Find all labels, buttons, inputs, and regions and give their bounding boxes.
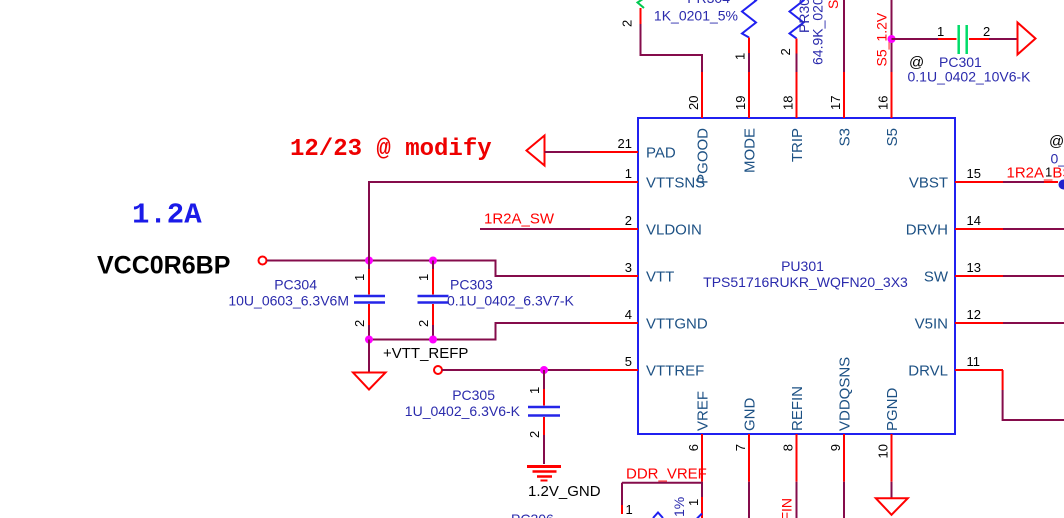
svg-text:@: @ — [1049, 133, 1064, 150]
svg-text:TRIP: TRIP — [789, 128, 806, 162]
svg-text:12: 12 — [967, 307, 981, 322]
svg-text:GND: GND — [742, 398, 759, 432]
port PAD arrow — [527, 136, 545, 166]
svg-text:21: 21 — [618, 136, 632, 151]
svg-text:2: 2 — [983, 24, 990, 39]
pin 13 SW — [924, 260, 1003, 286]
svg-text:12/23 @ modify: 12/23 @ modify — [290, 136, 492, 163]
svg-text:S5: S5 — [884, 128, 901, 146]
svg-text:16: 16 — [876, 96, 891, 110]
svg-text:PC306: PC306 — [511, 511, 554, 518]
pin 18 TRIP — [781, 72, 807, 162]
svg-text:1R2A_BST: 1R2A_BST — [1007, 165, 1064, 182]
pin 1 VTTSNS — [590, 166, 705, 192]
IC PU301 body — [638, 118, 955, 434]
svg-text:S3: S3 — [825, 0, 841, 9]
inductor dot (clipped) — [1059, 180, 1064, 190]
svg-text:2: 2 — [527, 431, 542, 438]
svg-text:15: 15 — [967, 166, 981, 181]
svg-text:1: 1 — [625, 166, 632, 181]
svg-text:1: 1 — [1045, 165, 1052, 180]
svg-text:DRVL: DRVL — [908, 363, 948, 380]
resistor (top-left, clipped) green tip — [620, 0, 647, 27]
wire MODE — [748, 53, 750, 72]
wire PGOOD — [641, 24, 703, 72]
svg-text:10: 10 — [876, 444, 891, 458]
wire VTTSNS — [369, 182, 590, 261]
svg-text:2: 2 — [352, 320, 367, 327]
junction node VTTREF at PC305 — [540, 366, 548, 374]
wire VTTREF — [442, 369, 590, 371]
svg-text:DDR_VREF: DDR_VREF — [626, 466, 707, 483]
pin 16 S5 — [876, 72, 902, 146]
svg-text:20: 20 — [686, 96, 701, 110]
wire S5 to PC301 — [892, 38, 939, 40]
wire VTTGND — [369, 323, 590, 340]
svg-text:1K_0201_5%: 1K_0201_5% — [654, 8, 738, 24]
svg-text:3: 3 — [625, 260, 632, 275]
svg-text:S5_1.2V: S5_1.2V — [874, 12, 890, 66]
svg-text:SW: SW — [924, 269, 949, 286]
svg-text:REFIN: REFIN — [779, 498, 795, 518]
svg-text:1R2A_SW: 1R2A_SW — [484, 211, 555, 228]
pin 3 VTT — [590, 260, 674, 286]
svg-text:PC305: PC305 — [452, 387, 495, 403]
junction node VCC at PC304 — [365, 257, 373, 265]
svg-text:1: 1 — [686, 499, 701, 506]
svg-text:5: 5 — [625, 354, 632, 369]
svg-text:VREF: VREF — [695, 391, 712, 431]
wire DRVL — [1003, 370, 1064, 420]
pin 2 VLDOIN — [590, 213, 702, 239]
svg-text:1: 1 — [352, 274, 367, 281]
port arrow right — [1018, 23, 1036, 55]
svg-text:64.9K_0201_1%: 64.9K_0201_1% — [810, 0, 826, 65]
pin 19 MODE — [733, 72, 759, 173]
junction node VCC at PC303 — [429, 257, 437, 265]
pin 15 VBST — [909, 166, 1003, 192]
capacitor PC301 — [908, 24, 1032, 85]
pin 11 DRVL — [908, 354, 1003, 380]
signal ground 1.2V_GND — [527, 467, 601, 501]
wire VDDQSNS pin9 — [843, 482, 845, 518]
svg-text:1: 1 — [733, 53, 748, 60]
svg-text:1: 1 — [416, 274, 431, 281]
ground power symbol PGND — [876, 498, 908, 515]
junction node S5 — [888, 35, 896, 43]
svg-text:MODE: MODE — [742, 128, 759, 173]
svg-text:7: 7 — [733, 444, 748, 451]
svg-text:1%: 1% — [671, 497, 687, 517]
wire TRIP — [796, 54, 798, 73]
wire PGND to ground — [891, 482, 893, 498]
pin 10 PGND — [876, 387, 902, 481]
capacitor PC303 — [416, 261, 575, 340]
svg-text:0.1U_0402_6.3V7-K: 0.1U_0402_6.3V7-K — [447, 293, 575, 309]
wire REFIN pin8 — [796, 482, 798, 518]
wire SW — [1003, 275, 1064, 277]
wire to ground — [368, 340, 370, 373]
pin 7 GND — [733, 398, 759, 482]
svg-text:V5IN: V5IN — [915, 316, 948, 333]
svg-text:17: 17 — [828, 96, 843, 110]
svg-text:2: 2 — [620, 20, 635, 27]
svg-text:1: 1 — [937, 24, 944, 39]
svg-text:1.2A: 1.2A — [132, 199, 202, 232]
resistor fragment (clipped) — [653, 513, 663, 518]
svg-text:VTTREF: VTTREF — [646, 363, 704, 380]
svg-text:2: 2 — [625, 213, 632, 228]
junction node gnd at PC303 — [429, 336, 437, 344]
svg-text:1: 1 — [527, 387, 542, 394]
pin 6 VREF — [686, 391, 712, 482]
svg-text:8: 8 — [781, 444, 796, 451]
svg-text:PC304: PC304 — [274, 277, 317, 293]
svg-text:DRVH: DRVH — [906, 222, 948, 239]
wire PC301 to port — [989, 38, 1018, 40]
pin 9 VDDQSNS — [828, 357, 854, 482]
pin 21 PAD — [590, 136, 676, 162]
svg-text:6: 6 — [686, 444, 701, 451]
ground power symbol — [353, 373, 386, 390]
svg-text:1: 1 — [626, 502, 633, 517]
svg-text:4: 4 — [625, 307, 632, 322]
svg-text:PAD: PAD — [646, 145, 676, 162]
svg-text:1U_0402_6.3V6-K: 1U_0402_6.3V6-K — [405, 403, 521, 419]
pin 5 VTTREF — [590, 354, 704, 380]
svg-text:0.1U_0402_10V6-K: 0.1U_0402_10V6-K — [908, 69, 1032, 85]
svg-text:VLDOIN: VLDOIN — [646, 222, 702, 239]
svg-text:18: 18 — [781, 96, 796, 110]
wire VCC0R6BP to VTT — [267, 261, 590, 277]
wire PAD — [545, 151, 591, 153]
wire S5 — [891, 0, 893, 72]
svg-text:TPS51716RUKR_WQFN20_3X3: TPS51716RUKR_WQFN20_3X3 — [703, 274, 908, 290]
svg-text:11: 11 — [967, 354, 981, 369]
pin 14 DRVH — [906, 213, 1003, 239]
pin 17 S3 — [828, 72, 854, 146]
svg-text:VTTGND: VTTGND — [646, 316, 708, 333]
svg-text:PGND: PGND — [884, 387, 901, 431]
wire GND pin7 — [748, 482, 750, 518]
port VCC0R6BP — [259, 257, 267, 265]
wire S3 — [843, 0, 845, 72]
svg-text:PR304: PR304 — [687, 0, 730, 6]
svg-text:13: 13 — [967, 260, 981, 275]
svg-text:9: 9 — [828, 444, 843, 451]
svg-text:S3: S3 — [837, 128, 854, 146]
svg-text:14: 14 — [967, 213, 981, 228]
svg-text:2: 2 — [416, 320, 431, 327]
svg-text:19: 19 — [733, 96, 748, 110]
svg-text:PU301: PU301 — [781, 258, 824, 274]
svg-text:0_0402: 0_0402 — [1051, 151, 1064, 167]
pin 20 PGOOD — [686, 72, 712, 184]
svg-text:VTT: VTT — [646, 269, 674, 286]
capacitor PC305 — [405, 370, 560, 464]
svg-text:2: 2 — [778, 48, 793, 55]
svg-text:PC303: PC303 — [450, 277, 493, 293]
wire DRVH — [1003, 228, 1064, 230]
junction node gnd at PC304 — [365, 336, 373, 344]
capacitor PC304 — [228, 261, 385, 340]
svg-text:1.2V_GND: 1.2V_GND — [528, 483, 601, 500]
svg-text:VDDQSNS: VDDQSNS — [837, 357, 854, 431]
svg-text:VBST: VBST — [909, 175, 948, 192]
svg-text:REFIN: REFIN — [789, 386, 806, 431]
wire V5IN — [1003, 322, 1064, 324]
wire VBST net 1R2A_BST — [1003, 181, 1058, 183]
resistor PR304 — [654, 0, 756, 60]
pin 12 V5IN — [915, 307, 1003, 333]
pin 4 VTTGND — [590, 307, 708, 333]
svg-text:VCC0R6BP: VCC0R6BP — [97, 252, 230, 280]
wire VREF to DDR_VREF — [622, 482, 702, 518]
wire VLDOIN net 1R2A_SW — [480, 228, 590, 230]
svg-text:10U_0603_6.3V6M: 10U_0603_6.3V6M — [228, 293, 349, 309]
pin 8 REFIN — [781, 386, 807, 482]
svg-text:PGOOD: PGOOD — [695, 128, 712, 184]
svg-text:+VTT_REFP: +VTT_REFP — [383, 345, 468, 362]
resistor PR305 — [778, 0, 826, 65]
port +VTT_REFP — [434, 366, 442, 374]
